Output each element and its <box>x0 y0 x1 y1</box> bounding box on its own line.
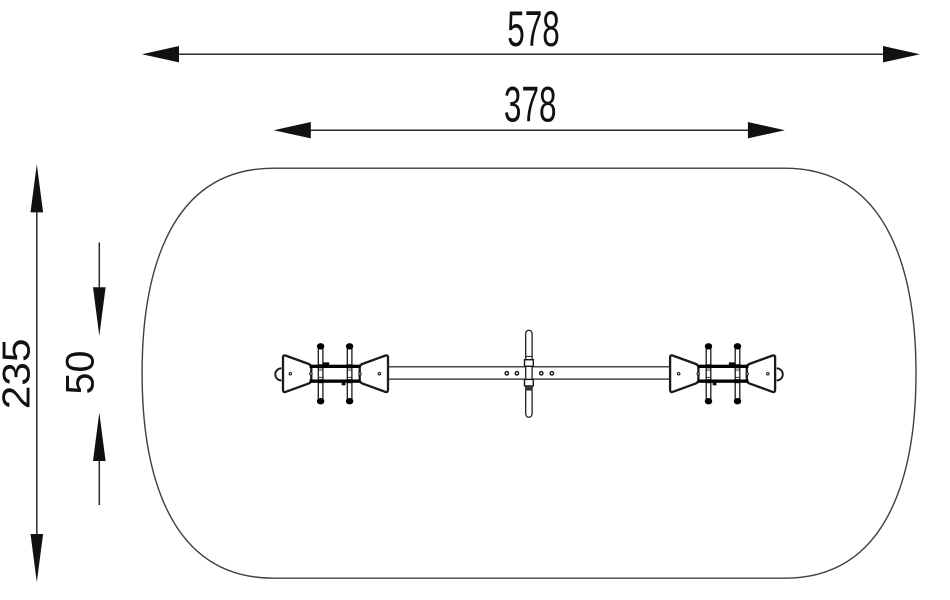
svg-text:578: 578 <box>507 0 560 56</box>
svg-text:378: 378 <box>504 76 557 132</box>
svg-text:235: 235 <box>0 338 38 409</box>
svg-text:50: 50 <box>59 351 103 395</box>
